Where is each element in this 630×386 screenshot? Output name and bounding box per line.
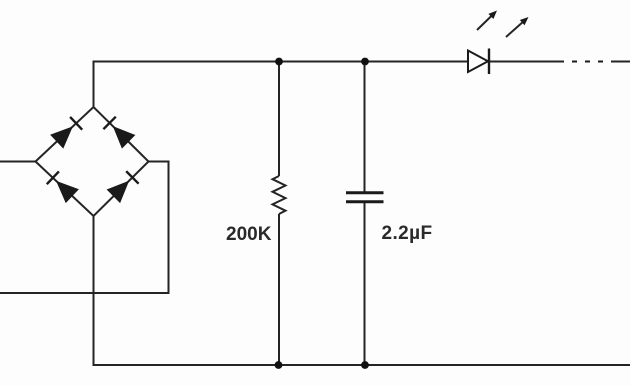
wire: top rail from bridge to LED anode [93, 61, 469, 63]
junction node: top rail / resistor [275, 58, 283, 66]
wire: bridge top vertex riser [93, 62, 95, 108]
bridge rectifier BR1 diamond [36, 107, 149, 216]
wire: AC input lower-left up to bridge right vertex [0, 162, 169, 294]
diode D4 lower-right (anode at bottom vertex, cathode toward right) [108, 171, 139, 202]
diode D2 upper-right (anode at right vertex, cathode toward top) [103, 117, 134, 148]
capacitor C1 top plate [346, 191, 384, 194]
junction node: bottom rail / resistor [275, 361, 283, 369]
capacitor C1 bottom plate [346, 200, 384, 203]
diode D3 lower-left (anode at bottom vertex, cathode toward left) [47, 171, 78, 202]
svg-text:200K: 200K [226, 224, 272, 245]
LED D5 triangle (anode left) [468, 51, 488, 73]
wire: top rail right edge stub [611, 61, 630, 63]
LED D5 cathode bar [488, 49, 490, 75]
wire: bridge bottom vertex riser [93, 216, 95, 365]
wire: AC input left to bridge left vertex [0, 161, 36, 163]
wire: LED cathode out [489, 61, 564, 63]
LED emission arrow 1 [477, 11, 497, 31]
resistor R1 zigzag body [273, 176, 286, 214]
capacitor C1 top lead [364, 62, 366, 192]
svg-text:2.2µF: 2.2µF [382, 223, 433, 244]
wire: bottom rail [93, 364, 630, 366]
junction node: bottom rail / capacitor [361, 361, 369, 369]
resistor R1 bottom lead [278, 214, 280, 365]
wire: dashed continuation [572, 61, 603, 63]
capacitor C1 bottom lead [364, 203, 366, 365]
diode D1 upper-left (anode at left vertex, cathode toward top) [51, 117, 82, 148]
LED emission arrow 2 [506, 17, 529, 37]
junction node: top rail / capacitor [361, 58, 369, 66]
resistor R1 top lead [278, 62, 280, 177]
